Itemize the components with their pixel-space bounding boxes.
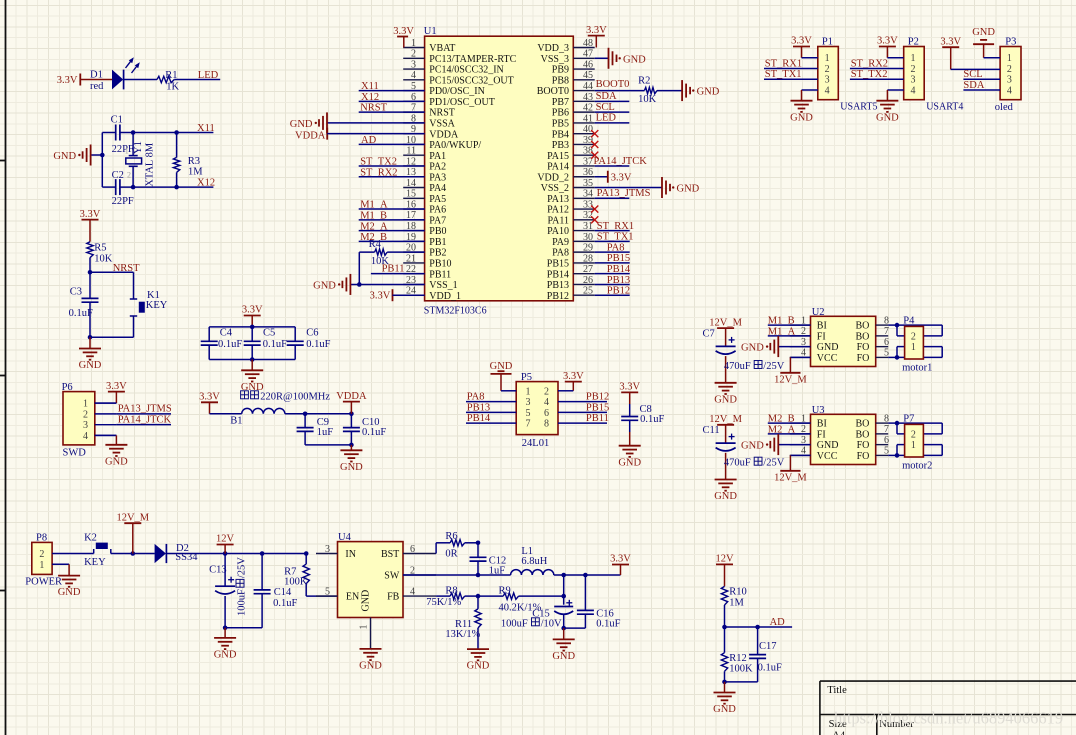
svg-text:VBAT: VBAT bbox=[429, 43, 455, 54]
svg-text:FO: FO bbox=[857, 342, 870, 353]
svg-text:GND: GND bbox=[105, 456, 128, 467]
svg-text:3: 3 bbox=[325, 544, 330, 555]
wire bbox=[210, 413, 242, 415]
svg-text:43: 43 bbox=[583, 92, 593, 103]
svg-text:41: 41 bbox=[583, 113, 593, 124]
svg-text:1: 1 bbox=[911, 440, 916, 451]
U1 pin 32 PA11 bbox=[548, 210, 595, 226]
power port 3.3V (P5) bbox=[563, 371, 584, 391]
svg-text:40: 40 bbox=[583, 124, 593, 135]
ground (U1 VSSA) bbox=[290, 112, 425, 133]
U1 pin 18 PB0 bbox=[403, 221, 446, 237]
U1 pin 47 VSS_3 bbox=[541, 49, 595, 65]
svg-text:https:: https: bbox=[834, 709, 871, 728]
title block bbox=[820, 681, 1076, 735]
capacitor C11 470uF bbox=[703, 425, 785, 479]
junction bbox=[223, 551, 228, 556]
svg-text:PB6: PB6 bbox=[552, 108, 569, 119]
svg-text:1: 1 bbox=[825, 53, 830, 64]
svg-text:2: 2 bbox=[39, 549, 44, 560]
junction bbox=[223, 626, 228, 631]
svg-text:motor2: motor2 bbox=[902, 460, 932, 471]
svg-text:motor1: motor1 bbox=[902, 362, 932, 373]
svg-text:PB7: PB7 bbox=[552, 97, 569, 108]
svg-text:22PF: 22PF bbox=[112, 196, 134, 207]
svg-text:0.1uF: 0.1uF bbox=[306, 339, 330, 350]
svg-text:FO: FO bbox=[857, 440, 870, 451]
U1 pin 3 PC14/0SCC32_IN bbox=[403, 59, 504, 75]
svg-text:7: 7 bbox=[884, 424, 889, 435]
capacitor C9 1uF bbox=[297, 414, 334, 445]
junction bbox=[88, 335, 93, 340]
U1 pin 22 PB11 bbox=[403, 264, 451, 280]
wire bbox=[802, 89, 818, 91]
power port 3.3V (U1 VDD_2) bbox=[595, 171, 632, 184]
ground (C13) bbox=[214, 628, 237, 661]
svg-text:BO: BO bbox=[855, 429, 869, 440]
svg-text:GND: GND bbox=[817, 440, 839, 451]
svg-text:3.3V: 3.3V bbox=[940, 36, 961, 47]
wire bbox=[984, 57, 1001, 59]
svg-text:12V_M: 12V_M bbox=[709, 317, 742, 328]
svg-text:LED: LED bbox=[596, 113, 617, 124]
U1 pin 20 PB2 bbox=[403, 243, 446, 259]
svg-text:C11: C11 bbox=[703, 425, 720, 436]
ground (R12) bbox=[713, 682, 736, 715]
svg-text:/10V: /10V bbox=[541, 618, 562, 629]
power port 3.3V (U1 VDD_1) bbox=[370, 289, 425, 301]
capacitor C15 100uF bbox=[501, 575, 573, 629]
capacitor C13 100uF bbox=[209, 554, 247, 628]
U1 pin 25 PB12 bbox=[547, 286, 595, 302]
svg-text:FI: FI bbox=[817, 331, 826, 342]
svg-text:6: 6 bbox=[410, 544, 415, 555]
svg-text:GND: GND bbox=[817, 342, 839, 353]
svg-text:0.1uF: 0.1uF bbox=[758, 663, 782, 674]
svg-text:1: 1 bbox=[911, 53, 916, 64]
ground (C3) bbox=[79, 337, 102, 371]
U1 pin 40 PB4 bbox=[552, 124, 595, 140]
junction bbox=[722, 680, 727, 685]
junction bbox=[895, 323, 900, 328]
svg-text:1: 1 bbox=[1007, 53, 1012, 64]
U1 pin 27 PB14 bbox=[547, 264, 595, 280]
U1 pin 37 PA14 bbox=[547, 156, 595, 172]
power port 3.3V (P6) bbox=[106, 381, 127, 403]
svg-text:VDDA: VDDA bbox=[295, 130, 326, 141]
svg-text:100uF: 100uF bbox=[501, 618, 528, 629]
ground (P5) bbox=[490, 361, 513, 391]
svg-text:D1: D1 bbox=[90, 69, 103, 80]
U1 pin 42 PB6 bbox=[552, 103, 595, 119]
svg-text:GND: GND bbox=[313, 280, 336, 291]
capacitor C17 0.1uF bbox=[749, 627, 782, 682]
svg-text:PA15: PA15 bbox=[547, 151, 569, 162]
svg-text:3.3V: 3.3V bbox=[586, 25, 607, 36]
wire bbox=[124, 79, 157, 81]
svg-text:R4: R4 bbox=[369, 239, 382, 250]
wire bbox=[305, 444, 351, 446]
svg-text:VSS_1: VSS_1 bbox=[429, 280, 457, 291]
svg-text:14: 14 bbox=[406, 178, 416, 189]
svg-text:AD: AD bbox=[770, 617, 786, 628]
svg-text:A4: A4 bbox=[832, 731, 846, 735]
svg-text:0R: 0R bbox=[445, 548, 457, 559]
U1 pin 48 VDD_3 bbox=[537, 38, 594, 54]
junction bbox=[561, 594, 566, 599]
wire AD bbox=[725, 626, 793, 628]
capacitor C10 0.1uF bbox=[343, 414, 386, 445]
ground (U2 pin3) bbox=[741, 336, 810, 357]
svg-text:12V_M: 12V_M bbox=[774, 472, 807, 483]
svg-text:GND: GND bbox=[467, 661, 490, 672]
svg-text:GND: GND bbox=[713, 704, 736, 715]
junction bbox=[895, 421, 900, 426]
U1 pin 21 PB10 bbox=[403, 253, 451, 269]
ground (crystal) bbox=[53, 145, 102, 166]
no-connect pin33 bbox=[591, 205, 598, 212]
motor driver U3 bbox=[790, 405, 889, 465]
svg-text:PA2: PA2 bbox=[429, 162, 446, 173]
svg-text:R5: R5 bbox=[94, 242, 106, 253]
junction bbox=[131, 130, 136, 135]
svg-text:GND: GND bbox=[714, 394, 737, 405]
svg-text:GND: GND bbox=[58, 587, 81, 598]
svg-text:PA1: PA1 bbox=[429, 151, 446, 162]
svg-text:1: 1 bbox=[911, 342, 916, 353]
svg-text:100K: 100K bbox=[284, 577, 308, 588]
svg-text:GND: GND bbox=[618, 457, 641, 468]
svg-text:EN: EN bbox=[346, 592, 359, 603]
junction bbox=[357, 282, 362, 287]
junction bbox=[722, 625, 727, 630]
wire bbox=[90, 336, 134, 338]
svg-text:GND: GND bbox=[697, 87, 720, 98]
wire bbox=[725, 681, 758, 683]
svg-text:1M: 1M bbox=[729, 597, 744, 608]
ground (P3) bbox=[972, 27, 995, 58]
ground (U4) bbox=[360, 648, 382, 650]
wire bbox=[888, 454, 897, 456]
svg-text:PB4: PB4 bbox=[552, 129, 569, 140]
U1 pin 30 PA9 bbox=[552, 232, 595, 248]
svg-text:PB8: PB8 bbox=[552, 75, 569, 86]
svg-text:PA14_JTCK: PA14_JTCK bbox=[118, 414, 172, 425]
svg-text:6: 6 bbox=[544, 408, 549, 419]
diode D1 (red LED) bbox=[90, 57, 140, 92]
svg-text:0.1uF: 0.1uF bbox=[69, 308, 93, 319]
svg-text:26: 26 bbox=[583, 275, 593, 286]
wire left vertical bbox=[101, 133, 103, 188]
junction bbox=[250, 325, 255, 330]
svg-text:BI: BI bbox=[817, 419, 827, 430]
svg-text:34: 34 bbox=[583, 189, 593, 200]
svg-text:10K: 10K bbox=[638, 94, 657, 105]
svg-text:PA14_JTCK: PA14_JTCK bbox=[594, 156, 648, 167]
wire bbox=[285, 413, 352, 415]
svg-text:VDD_1: VDD_1 bbox=[429, 291, 461, 302]
svg-text:Y1: Y1 bbox=[133, 141, 144, 154]
svg-text:47: 47 bbox=[583, 49, 593, 60]
U1 pin 45 PB8 bbox=[552, 70, 595, 86]
ground (C15) bbox=[552, 628, 575, 662]
svg-text:4: 4 bbox=[83, 431, 88, 442]
wire bbox=[887, 57, 903, 59]
junction bbox=[561, 626, 566, 631]
regulator U4 bbox=[316, 532, 436, 649]
U1 pin 15 PA5 bbox=[403, 189, 446, 205]
ferrite bead B1 220R@100MHz bbox=[230, 391, 330, 427]
power port 3.3V (U1 pin1) bbox=[393, 26, 414, 48]
U1 pin 28 PB15 bbox=[547, 253, 595, 269]
svg-text:GND: GND bbox=[714, 491, 737, 502]
U1 pin 41 PB5 bbox=[552, 113, 595, 129]
junction bbox=[349, 443, 354, 448]
wire bbox=[358, 252, 360, 284]
power port 3.3V (B1) bbox=[199, 392, 220, 414]
svg-text:4: 4 bbox=[410, 586, 415, 597]
svg-text:45: 45 bbox=[583, 70, 593, 81]
no-connect pin39 bbox=[591, 141, 598, 148]
svg-text:oled: oled bbox=[995, 102, 1014, 113]
U1 pin 6 PD1/OSC_OUT bbox=[403, 92, 495, 108]
svg-text:GND: GND bbox=[972, 27, 995, 38]
no-connect pin32 bbox=[591, 216, 598, 223]
power port 3.3V (P2) bbox=[877, 36, 898, 58]
header P2 USART4 bbox=[904, 37, 964, 113]
svg-text:GND: GND bbox=[361, 590, 372, 612]
svg-text:PA7: PA7 bbox=[429, 215, 446, 226]
svg-text:3: 3 bbox=[83, 420, 88, 431]
capacitor C1 22PF bbox=[111, 114, 134, 155]
wire bbox=[888, 324, 897, 326]
svg-text:2: 2 bbox=[825, 64, 830, 75]
svg-text:/25V: /25V bbox=[763, 361, 784, 372]
svg-text:PA13_JTMS: PA13_JTMS bbox=[597, 188, 651, 199]
svg-text:KEY: KEY bbox=[146, 300, 168, 311]
svg-text:P5: P5 bbox=[521, 372, 532, 383]
svg-text:GND: GND bbox=[623, 54, 646, 65]
capacitor C16 0.1uF bbox=[577, 575, 621, 629]
wire bbox=[174, 79, 220, 81]
svg-text:2: 2 bbox=[83, 409, 88, 420]
svg-text:35: 35 bbox=[583, 178, 593, 189]
svg-text:2: 2 bbox=[544, 386, 549, 397]
capacitor C14 0.1uF bbox=[254, 554, 298, 628]
svg-text:7: 7 bbox=[526, 419, 531, 430]
ground (C5) bbox=[241, 360, 264, 393]
svg-text:BO: BO bbox=[855, 419, 869, 430]
svg-text:PA11: PA11 bbox=[548, 215, 570, 226]
svg-text:R3: R3 bbox=[188, 156, 200, 167]
U1 pin 46 PB9 bbox=[552, 59, 595, 75]
resistor R7 100K bbox=[284, 554, 309, 597]
capacitor C7 470uF bbox=[703, 328, 785, 382]
svg-text:4: 4 bbox=[911, 86, 916, 97]
wire bbox=[80, 79, 112, 81]
svg-text:PA13: PA13 bbox=[547, 194, 569, 205]
svg-text:3: 3 bbox=[825, 75, 830, 86]
power port 12V_M (C11) bbox=[709, 414, 742, 443]
ground (P2) bbox=[876, 100, 898, 102]
svg-text:C5: C5 bbox=[263, 328, 275, 339]
svg-text:SDA: SDA bbox=[596, 91, 617, 102]
svg-text:29: 29 bbox=[583, 243, 593, 254]
crystal Y1 XTAL 8M bbox=[125, 133, 156, 188]
svg-text:/25V: /25V bbox=[237, 557, 248, 578]
svg-text:K2: K2 bbox=[84, 532, 97, 543]
svg-text:C13: C13 bbox=[209, 565, 227, 576]
svg-text:R10: R10 bbox=[729, 587, 747, 598]
svg-text:PB10: PB10 bbox=[429, 259, 451, 270]
svg-text:VSS_2: VSS_2 bbox=[541, 183, 569, 194]
resistor R4 10K bbox=[359, 239, 424, 267]
svg-text:FO: FO bbox=[857, 353, 870, 364]
inductor L1 6.8uH bbox=[511, 546, 554, 575]
switch K2 KEY bbox=[84, 532, 111, 568]
svg-text:PA3: PA3 bbox=[429, 172, 446, 183]
U1 pin 12 PA2 bbox=[403, 156, 446, 172]
svg-text:GND: GND bbox=[552, 651, 575, 662]
svg-text:GND: GND bbox=[53, 151, 76, 162]
svg-text:2: 2 bbox=[911, 64, 916, 75]
resistor R2 10K bbox=[638, 75, 657, 104]
svg-text:U1: U1 bbox=[424, 26, 437, 37]
svg-text:1: 1 bbox=[83, 399, 88, 410]
svg-text:12V: 12V bbox=[715, 554, 734, 565]
power port 12V_M (K2) bbox=[116, 512, 149, 553]
switch K1 KEY bbox=[130, 272, 168, 337]
svg-text:GND: GND bbox=[677, 184, 700, 195]
svg-text:C4: C4 bbox=[220, 328, 233, 339]
svg-text:4: 4 bbox=[411, 70, 416, 81]
svg-text:2: 2 bbox=[911, 429, 916, 440]
U1 pin 23 VSS_1 bbox=[403, 275, 457, 291]
svg-text:XTAL 8M: XTAL 8M bbox=[145, 142, 156, 187]
wire bbox=[564, 627, 586, 629]
svg-text:5: 5 bbox=[526, 408, 531, 419]
svg-text:2: 2 bbox=[911, 331, 916, 342]
svg-text:PA0/WKUP/: PA0/WKUP/ bbox=[429, 140, 481, 151]
svg-text:C14: C14 bbox=[274, 587, 292, 598]
power port VDDA (U1) bbox=[295, 128, 425, 142]
power port 12V_M (U2) bbox=[774, 357, 810, 385]
svg-text:BOOT0: BOOT0 bbox=[537, 86, 569, 97]
svg-text:3: 3 bbox=[526, 397, 531, 408]
svg-text:3.3V: 3.3V bbox=[80, 209, 101, 220]
svg-text:PC15/0SCC32_OUT: PC15/0SCC32_OUT bbox=[429, 75, 513, 86]
svg-text:U2: U2 bbox=[812, 307, 825, 318]
svg-text:P1: P1 bbox=[822, 37, 833, 48]
svg-text:8: 8 bbox=[544, 419, 549, 430]
wire top rail X11 bbox=[102, 132, 115, 134]
ground (U1 VSS_2) bbox=[595, 177, 700, 198]
wire bbox=[501, 390, 516, 392]
power port 12V_M (C7) bbox=[709, 317, 742, 346]
svg-text:Title: Title bbox=[827, 685, 847, 696]
svg-text:PA5: PA5 bbox=[429, 194, 446, 205]
svg-text:1K: 1K bbox=[166, 81, 179, 92]
svg-text:BO: BO bbox=[855, 331, 869, 342]
svg-text:SW: SW bbox=[384, 571, 400, 582]
svg-text:33: 33 bbox=[583, 199, 593, 210]
power port 3.3V (P3) bbox=[940, 36, 961, 69]
ground (P6) bbox=[105, 435, 128, 467]
svg-text:10K: 10K bbox=[94, 254, 113, 265]
power port VDDA bbox=[336, 391, 367, 414]
svg-text:12V: 12V bbox=[216, 534, 235, 545]
svg-text:BI: BI bbox=[817, 321, 827, 332]
svg-text:GND: GND bbox=[790, 112, 813, 123]
svg-text:C2: C2 bbox=[112, 170, 124, 181]
U1 pin 19 PB1 bbox=[403, 232, 446, 248]
svg-text:100uF: 100uF bbox=[237, 589, 248, 616]
resistor R11 13K/1% bbox=[445, 596, 481, 649]
svg-text:42: 42 bbox=[583, 103, 593, 114]
power port 3.3V (LED) bbox=[57, 74, 81, 87]
svg-text:3.3V: 3.3V bbox=[370, 290, 391, 301]
svg-text:POWER: POWER bbox=[25, 576, 62, 587]
svg-text:GND: GND bbox=[214, 650, 237, 661]
U1 pin 39 PB3 bbox=[552, 135, 595, 151]
svg-text:P3: P3 bbox=[1005, 37, 1016, 48]
svg-text:PB2: PB2 bbox=[429, 248, 446, 259]
wire bbox=[888, 422, 897, 424]
svg-text:3.3V: 3.3V bbox=[877, 36, 898, 47]
svg-text:VCC: VCC bbox=[817, 353, 838, 364]
svg-text:FB: FB bbox=[387, 592, 400, 603]
svg-text:PB11: PB11 bbox=[382, 264, 405, 275]
svg-text:5: 5 bbox=[325, 586, 330, 597]
svg-text:12V_M: 12V_M bbox=[774, 374, 807, 385]
svg-text:1: 1 bbox=[526, 386, 531, 397]
svg-text:BOOT0: BOOT0 bbox=[596, 79, 630, 90]
wire bbox=[111, 553, 155, 555]
svg-text:3: 3 bbox=[411, 59, 416, 70]
svg-text:X11: X11 bbox=[197, 123, 215, 134]
svg-text:3: 3 bbox=[911, 75, 916, 86]
U1 pin 8 VSSA bbox=[403, 113, 455, 129]
U1 pin 38 PA15 bbox=[547, 146, 595, 162]
svg-text:P8: P8 bbox=[36, 533, 47, 544]
resistor R5 10K bbox=[87, 242, 113, 273]
svg-text:3: 3 bbox=[1007, 75, 1012, 86]
power port 3.3V (R5) bbox=[80, 209, 101, 242]
svg-text:27: 27 bbox=[583, 264, 593, 275]
svg-text:470uF: 470uF bbox=[724, 458, 751, 469]
svg-text:VDD_3: VDD_3 bbox=[537, 43, 569, 54]
header P8 POWER bbox=[25, 533, 62, 588]
wire bbox=[95, 402, 117, 404]
svg-text:GND: GND bbox=[741, 343, 764, 354]
svg-text:6: 6 bbox=[884, 435, 889, 446]
U1 pin 44 BOOT0 bbox=[537, 81, 595, 97]
svg-text:PD0/OSC_IN: PD0/OSC_IN bbox=[429, 86, 485, 97]
svg-text:0.1uF: 0.1uF bbox=[273, 598, 297, 609]
header P6 SWD bbox=[62, 382, 117, 458]
svg-text:BST: BST bbox=[381, 549, 399, 560]
U1 pin 14 PA4 bbox=[403, 178, 446, 194]
svg-text:P7: P7 bbox=[903, 413, 914, 424]
svg-text:24L01: 24L01 bbox=[522, 438, 549, 449]
svg-text:1M: 1M bbox=[188, 167, 203, 178]
header P3 oled bbox=[995, 37, 1021, 113]
svg-text:21: 21 bbox=[406, 253, 416, 264]
resistor R8 75K/1% bbox=[426, 586, 478, 608]
svg-text:3.3V: 3.3V bbox=[610, 554, 631, 565]
svg-text:12V_M: 12V_M bbox=[709, 414, 742, 425]
svg-text:NRST: NRST bbox=[429, 108, 455, 119]
